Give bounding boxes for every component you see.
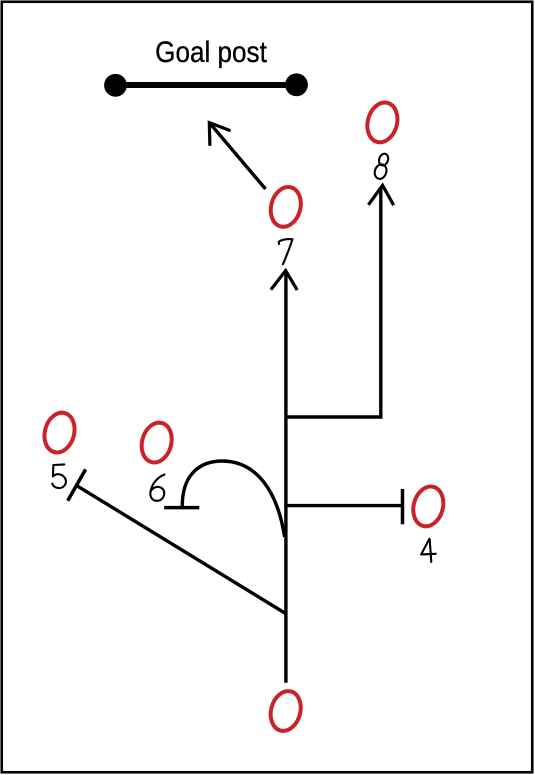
svg-text:Goal post: Goal post xyxy=(155,35,267,68)
player O4 xyxy=(409,483,448,530)
branch wire to arrow 8 xyxy=(286,185,394,417)
run arrow for 7 (main vertical) xyxy=(271,271,297,683)
player O6 xyxy=(137,419,176,466)
number 8 xyxy=(373,153,390,181)
number 6 xyxy=(150,475,164,501)
player O7 xyxy=(266,184,305,231)
player O8 xyxy=(363,99,402,146)
number 5 xyxy=(52,464,66,488)
player O5 xyxy=(40,409,79,456)
ball carrier O (bottom) xyxy=(266,688,305,735)
goal post crossbar xyxy=(104,73,308,96)
block curve for 6 xyxy=(164,461,284,537)
block line from 5 xyxy=(68,469,286,613)
label "Goal post" xyxy=(155,35,267,68)
block line to 4 xyxy=(286,489,403,524)
arrow from player 7 to goal xyxy=(209,123,265,189)
number 4 xyxy=(421,539,436,562)
number 7 xyxy=(279,239,293,264)
